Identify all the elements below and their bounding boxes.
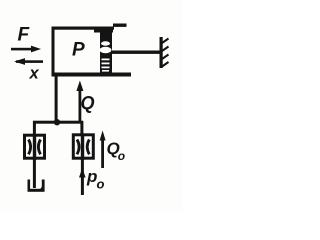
svg-text:o: o [97, 177, 105, 192]
force arrow (right) [11, 46, 41, 53]
flow arrow Q [76, 81, 83, 123]
left throttle valve [25, 134, 45, 160]
left valve outlet wire [33, 158, 36, 188]
wire to right valve [80, 121, 83, 135]
svg-text:F: F [18, 25, 31, 46]
spring (piston) [100, 29, 113, 74]
svg-text:x: x [29, 65, 40, 83]
wire cylinder to junction [55, 76, 58, 123]
drain tank [28, 180, 45, 192]
fixed wall anchor [160, 37, 169, 68]
output flow label Q0 [107, 139, 126, 163]
cylinder top wall [52, 27, 114, 30]
svg-text:P: P [72, 40, 85, 61]
piston rod [111, 51, 160, 54]
wire to left valve [33, 121, 36, 135]
manifold wire [33, 121, 83, 124]
supply pipe with arrow p0 [79, 160, 86, 196]
cylinder bottom wall [52, 73, 132, 77]
junction [54, 119, 60, 125]
cylinder left wall [52, 27, 55, 76]
svg-text:o: o [118, 149, 125, 163]
svg-text:Q: Q [81, 93, 95, 113]
displacement arrow (left) [14, 58, 43, 65]
output flow arrow Q0 [100, 131, 106, 169]
supply pressure label p0 [86, 167, 105, 192]
right throttle valve [73, 134, 93, 161]
